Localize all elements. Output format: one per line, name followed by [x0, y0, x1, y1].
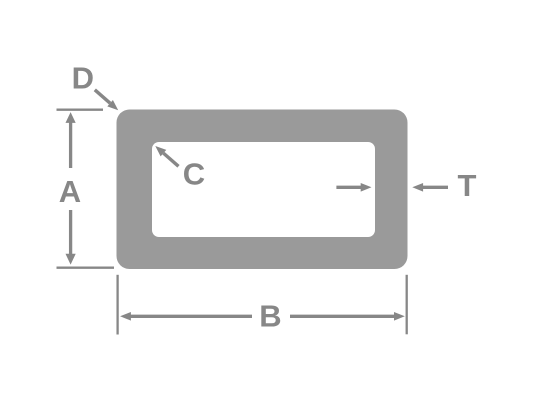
- label C: [183, 157, 205, 192]
- dimension A arrowhead up: [66, 112, 76, 123]
- svg-text:B: B: [259, 299, 281, 334]
- thickness T arrow inside (pointing right at wall): [336, 183, 371, 192]
- dimension B extension line right: [406, 275, 408, 335]
- dimension B arrow line left segment: [130, 315, 252, 318]
- dimension A arrow line upper segment: [69, 122, 72, 169]
- dimension A extension line bottom: [57, 267, 115, 269]
- dimension A arrow line lower segment: [69, 210, 72, 256]
- label A: [59, 174, 81, 209]
- label D: [72, 61, 94, 96]
- tube inner bore: [152, 142, 375, 237]
- dimension B arrowhead left: [120, 312, 131, 321]
- svg-text:A: A: [59, 174, 81, 209]
- thickness T arrow outside (pointing left at wall): [412, 183, 448, 192]
- svg-text:D: D: [72, 61, 94, 96]
- dimension B extension line left: [116, 275, 118, 335]
- label B: [259, 299, 281, 334]
- dimension A arrowhead down: [66, 254, 76, 265]
- callout arrow D (to outer corner): [95, 90, 118, 111]
- dimension B arrow line right segment: [290, 315, 395, 318]
- callout arrow C (to inner corner): [155, 146, 178, 166]
- svg-text:T: T: [458, 168, 477, 203]
- dimension B arrowhead right: [394, 312, 405, 321]
- dimension A extension line top: [57, 109, 104, 111]
- tube outer wall: [117, 110, 408, 270]
- svg-text:C: C: [183, 157, 205, 192]
- label T: [458, 168, 477, 203]
